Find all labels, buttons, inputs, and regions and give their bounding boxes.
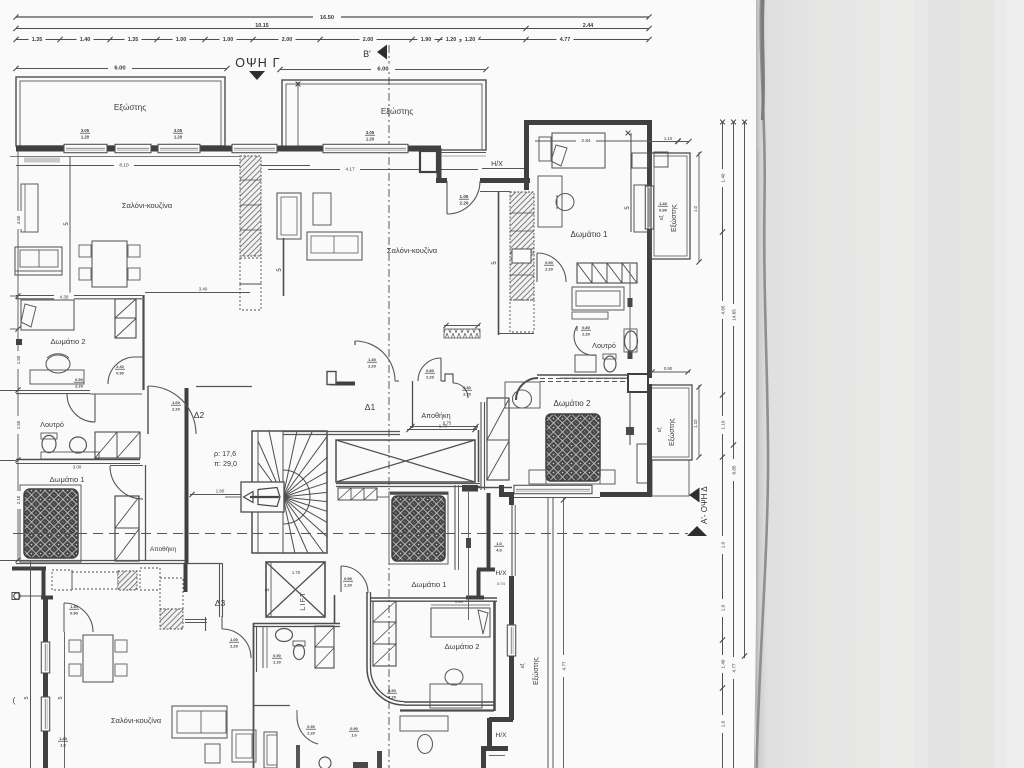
svg-text:2.20: 2.20 — [368, 364, 377, 369]
svg-text:0.75: 0.75 — [443, 421, 452, 426]
svg-text:1.00: 1.00 — [230, 637, 239, 642]
lift shaft with X — [266, 562, 325, 617]
interior dimension line salon-middle — [268, 169, 478, 171]
svg-text:4.17: 4.17 — [345, 166, 355, 172]
second small arc at niche — [453, 383, 468, 398]
door arc bedroom1 left apt — [110, 465, 143, 467]
door of bedroom1 top-right with arc — [536, 253, 538, 282]
window/balcony door in east wall — [645, 186, 653, 229]
svg-text:0.80: 0.80 — [582, 325, 591, 330]
svg-text:1.35: 1.35 — [128, 37, 139, 43]
svg-text:3.05: 3.05 — [366, 130, 375, 135]
wall step down from north wall — [437, 148, 442, 181]
svg-text:1.40: 1.40 — [80, 37, 91, 43]
balcony edge line far left — [30, 560, 32, 768]
pillar box at wall step — [420, 151, 437, 172]
line from wall to stair arrow — [225, 496, 241, 498]
svg-text:1.90: 1.90 — [421, 37, 432, 43]
svg-text:0.90: 0.90 — [659, 208, 668, 213]
svg-text:Εξώστης: Εξώστης — [532, 657, 540, 685]
dimension line (third row, partial widths) at top — [16, 39, 649, 41]
door arc bedroom2 left apt — [108, 357, 135, 384]
vertical dim line east of balcony upper — [698, 152, 700, 262]
a/c box on balcony — [654, 152, 668, 167]
dimension line above left balcony — [16, 68, 227, 70]
svg-text:2.20: 2.20 — [230, 644, 239, 649]
svg-text:3.40: 3.40 — [199, 287, 208, 292]
east wall of bedroom2 right (thick) — [647, 384, 652, 497]
svg-text:Δ3: Δ3 — [215, 598, 226, 608]
svg-text:4.77: 4.77 — [560, 37, 571, 43]
svg-text:εξ: εξ — [659, 215, 665, 220]
door arc D3 balcony — [63, 603, 65, 632]
svg-text:4.77: 4.77 — [732, 663, 737, 672]
svg-text:2.00: 2.00 — [363, 37, 374, 43]
svg-text:3.00: 3.00 — [73, 465, 82, 470]
dim arrow line above void — [407, 429, 477, 431]
white appliance box in kitchen strip — [512, 249, 531, 263]
window W1 in north wall — [64, 144, 107, 152]
svg-text:1.00: 1.00 — [172, 400, 181, 405]
toilet bathroom B — [319, 757, 331, 768]
svg-text:Λουτρό: Λουτρό — [592, 341, 616, 350]
svg-text:1.70: 1.70 — [292, 570, 301, 575]
wardrobe bedroom1 left apt — [115, 496, 139, 561]
stair radial treads — [258, 463, 283, 497]
desk1 bottom-center — [430, 684, 482, 708]
chairs around dining table top-left — [79, 245, 91, 257]
svg-text:0.90: 0.90 — [350, 727, 357, 731]
wardrobe box lower right bedroom2 — [637, 444, 648, 483]
toilet (top-right bathroom) — [604, 356, 616, 372]
white pillar gap at wall stub — [327, 372, 336, 385]
closet row below corridor — [338, 488, 377, 500]
H/X shaft step walls — [477, 568, 495, 572]
dark hatched bed middle (D1) — [392, 496, 445, 561]
svg-text:8.85: 8.85 — [732, 465, 737, 474]
svg-text:5: 5 — [24, 696, 30, 699]
section arrow triangles right — [689, 488, 700, 503]
toilet left bathroom — [42, 435, 56, 452]
north wall of bottom-center unit (double) — [370, 597, 497, 599]
bathroom door leaf+arc (left apt) — [94, 394, 96, 422]
svg-text:1.0: 1.0 — [721, 604, 726, 611]
svg-text:1.50: 1.50 — [16, 355, 21, 364]
svg-text:2.00: 2.00 — [282, 37, 293, 43]
svg-text:Δ2: Δ2 — [194, 410, 205, 420]
vertical dimension line 1 (right margin) — [722, 122, 724, 768]
svg-text:εξ: εξ — [520, 663, 526, 668]
svg-text:2.84: 2.84 — [581, 138, 591, 144]
svg-text:0.90: 0.90 — [273, 654, 280, 658]
thick wall east of storage — [185, 388, 189, 563]
east exterior wall continues — [647, 229, 652, 378]
kitchen counter strip between salons (hatched) — [240, 156, 261, 256]
svg-text:2.20: 2.20 — [426, 375, 435, 380]
section line B (vertical dash-dot) — [388, 45, 390, 768]
kitchen hatched box D3 column — [160, 609, 183, 629]
corner sofa vertical part (salon 2) — [277, 193, 301, 239]
desk bedroom2 right apt — [505, 382, 540, 408]
kitchen hatched box D3 — [118, 571, 137, 590]
corridor wall to east (double) — [404, 701, 494, 703]
sofa D3 — [172, 706, 227, 738]
svg-text:(: ( — [13, 696, 16, 705]
svg-text:0.74: 0.74 — [497, 581, 506, 586]
svg-text:1.0: 1.0 — [721, 541, 726, 548]
bathroom top wall with door gap — [90, 393, 142, 395]
dimension at top of east balcony — [648, 141, 689, 143]
door lines bathroom A — [262, 626, 264, 668]
interior dimension line salon-left — [16, 165, 310, 167]
storage room wall vertical — [145, 465, 147, 560]
entry door D1 leaf — [354, 341, 356, 345]
wash basin (top-right bathroom) — [625, 331, 638, 351]
door arc top of corridor S-wall — [340, 566, 342, 592]
svg-text:1.40: 1.40 — [659, 201, 668, 206]
partition wall right of salon2 — [498, 192, 500, 335]
svg-text:0.90: 0.90 — [116, 372, 123, 376]
stair direction arrow (up) — [241, 482, 284, 512]
closet bathroom A — [315, 626, 334, 668]
svg-text:2.44: 2.44 — [583, 23, 594, 29]
wall cut mark small dark square — [16, 339, 22, 345]
entry door D1 swing arc — [355, 341, 395, 381]
north exterior wall (thick) with window openings — [16, 146, 64, 152]
chairs dining D3 — [69, 640, 81, 652]
wash basin left bathroom — [70, 437, 87, 453]
bed bedroom2 (left apt) — [21, 300, 74, 330]
vertical dimension line 2 (right margin) — [733, 122, 735, 768]
sofa in salon top-left — [15, 247, 62, 275]
svg-text:Β': Β' — [363, 49, 371, 59]
svg-text:2.20: 2.20 — [545, 267, 554, 272]
door arc bathroom B — [297, 716, 318, 744]
dining table top-left — [92, 241, 127, 287]
left margin dimension line — [17, 150, 19, 560]
svg-text:ρ: 17,6: ρ: 17,6 — [214, 449, 236, 458]
thin link line to closet row — [377, 496, 389, 498]
svg-text:6.00: 6.00 — [377, 67, 388, 73]
storage door arc middle — [418, 358, 441, 381]
kitchen dotted counter row D3 — [52, 570, 72, 590]
svg-text:4.65: 4.65 — [721, 305, 726, 314]
bed in bedroom1 top-right — [552, 133, 605, 168]
svg-text:1.0: 1.0 — [60, 743, 66, 748]
dimension line (second row) at top — [16, 28, 649, 30]
dim label on wall — [54, 293, 74, 300]
party wall stub between D1 and D2 — [330, 382, 355, 386]
tall closet with diagonals (corridor east) — [487, 398, 509, 480]
inner wall line bedroom2 right — [629, 392, 631, 445]
svg-text:2.20: 2.20 — [388, 695, 397, 700]
svg-text:Η/Χ: Η/Χ — [496, 570, 508, 577]
chair in bedroom1 top-right — [556, 194, 574, 211]
svg-text:1.20: 1.20 — [174, 135, 183, 140]
partition wall between salons — [283, 238, 285, 296]
east wall bottom-center unit — [493, 601, 496, 711]
svg-text:1.00: 1.00 — [460, 194, 469, 199]
storage middle west wall — [412, 381, 414, 428]
window W3 in north wall — [158, 144, 200, 152]
partition wall east of bedroom2 — [142, 295, 144, 390]
svg-text:LIFT: LIFT — [298, 591, 307, 610]
svg-text:1.0: 1.0 — [721, 720, 726, 727]
chair bedroom2 right apt — [513, 390, 532, 408]
section line A (dashed horizontal) — [13, 533, 688, 535]
svg-text:1.40: 1.40 — [70, 604, 79, 609]
wall piece right of bathroom A — [334, 595, 336, 623]
chair bedroom2 left apt — [46, 355, 70, 373]
dining table D3 — [83, 635, 113, 682]
svg-text:0.80: 0.80 — [463, 386, 470, 390]
balcony face lines right of wall — [441, 152, 486, 154]
ragged scan fold edge — [757, 0, 769, 768]
side table D3 — [205, 744, 220, 763]
dimension line (overall width) at top — [16, 16, 649, 18]
bed head line middle — [390, 492, 448, 494]
wash basin bathroom A — [276, 629, 293, 642]
svg-text:0.90: 0.90 — [344, 576, 353, 581]
dark hatched bed bedroom2 right apt — [546, 414, 600, 481]
svg-text:Δωμάτιο 1: Δωμάτιο 1 — [411, 580, 446, 589]
corridor curved wall into bedroom2 — [516, 378, 538, 400]
svg-text:2.20: 2.20 — [75, 384, 84, 389]
chair2 bottom-center — [418, 735, 433, 754]
svg-text:0.90: 0.90 — [307, 725, 314, 729]
inner wall line of bedroom1 east side — [630, 133, 632, 232]
bed bottom-center unit — [431, 608, 490, 637]
bathroom door arc (top-right unit) — [574, 326, 596, 355]
svg-text:1.35: 1.35 — [32, 37, 43, 43]
kitchen dotted box D3 right — [140, 568, 160, 590]
svg-text:Δ1: Δ1 — [365, 402, 376, 412]
wall extension stubs at left edge — [0, 390, 16, 392]
bed side tables bedroom2 right apt — [529, 470, 546, 484]
svg-text:2.20: 2.20 — [273, 661, 280, 665]
corridor east walls — [478, 430, 480, 482]
svg-text:1.00: 1.00 — [176, 37, 187, 43]
H/X shaft west wall (thick) — [487, 493, 491, 568]
bathroom B walls — [253, 705, 290, 707]
svg-text:4.77: 4.77 — [562, 661, 567, 670]
stair inner edge line — [257, 431, 259, 553]
coffee table salon 2 — [313, 193, 331, 225]
svg-text:2.40: 2.40 — [116, 365, 123, 369]
dimension line above middle balcony — [280, 69, 486, 71]
closet with diagonals right of bathroom — [95, 432, 140, 458]
svg-text:10.15: 10.15 — [255, 23, 269, 29]
balcony (Exostis) top-middle outline — [282, 80, 486, 150]
vertical dimension line 3 (right margin) — [744, 122, 746, 658]
svg-text:14.65: 14.65 — [732, 309, 737, 321]
svg-text:0.80: 0.80 — [426, 368, 435, 373]
svg-text:6.00: 6.00 — [114, 66, 125, 72]
svg-text:Εξώστης: Εξώστης — [114, 103, 146, 112]
svg-text:3.05: 3.05 — [174, 128, 183, 133]
svg-text:2.20: 2.20 — [307, 732, 314, 736]
svg-text:3.05: 3.05 — [81, 128, 90, 133]
small dark wall chunks at bottom edge — [353, 762, 368, 768]
svg-text:2.20: 2.20 — [172, 407, 181, 412]
svg-text:Αποθήκη: Αποθήκη — [421, 411, 450, 420]
hall wall above stairs — [196, 386, 252, 388]
grey page-edge region on the right of the scan — [756, 0, 1024, 768]
closet column in corridor — [373, 601, 396, 666]
svg-text:Δωμάτιο 2: Δωμάτιο 2 — [50, 337, 85, 346]
svg-text:0.74: 0.74 — [493, 746, 502, 751]
wardrobe boxes on east side — [632, 153, 648, 168]
dim line hall to stairs — [190, 494, 252, 496]
svg-text:16.50: 16.50 — [320, 15, 334, 21]
dark wall chunk at void corner — [462, 485, 478, 492]
svg-text:2.20: 2.20 — [463, 393, 470, 397]
svg-text:Σαλόνι-κουζίνα: Σαλόνι-κουζίνα — [387, 246, 438, 255]
thin partition line in salon-left — [69, 156, 71, 295]
chair1 bottom-center — [445, 669, 463, 685]
bed frame bedroom middle (D1) — [389, 492, 448, 564]
corner sofa horizontal part (salon 2) — [307, 232, 362, 260]
wall piece east of D3 entry — [184, 563, 188, 592]
kitchen dotted cabinets below strip — [240, 258, 261, 284]
north wall of top-right unit (thick) — [524, 120, 652, 125]
svg-text:1.10: 1.10 — [693, 419, 698, 428]
svg-text:Δωμάτιο 1: Δωμάτιο 1 — [571, 230, 608, 239]
svg-text:Η/Χ: Η/Χ — [496, 732, 508, 739]
line under window — [514, 497, 600, 499]
svg-text:1.10: 1.10 — [721, 420, 726, 429]
svg-text:1.0: 1.0 — [693, 205, 698, 212]
kitchen dotted cabinet below strip (right) — [510, 300, 534, 332]
svg-text:1.0: 1.0 — [351, 734, 356, 738]
svg-text:Δωμάτιο 2: Δωμάτιο 2 — [554, 399, 591, 408]
void over lower floor (X-crossed rectangle) — [336, 440, 475, 482]
kitchen counter strip top-right unit (hatched) — [510, 192, 534, 300]
svg-text:2.20: 2.20 — [344, 583, 353, 588]
thin double boundary above thick wall — [511, 505, 513, 576]
svg-text:0.90: 0.90 — [664, 366, 673, 371]
svg-text:1.20: 1.20 — [446, 37, 457, 43]
storage niche walls — [441, 374, 453, 383]
balcony east upper (Exostis) — [651, 153, 690, 259]
lamp symbol on balcony wall — [14, 593, 20, 599]
corridor double wall below void — [454, 485, 456, 570]
svg-text:εξ: εξ — [657, 427, 663, 432]
entry door arc D2 — [147, 386, 149, 434]
svg-text:Δωμάτιο 1: Δωμάτιο 1 — [49, 475, 84, 484]
zigzag threshold band top (balcony door of D1) — [444, 329, 480, 338]
svg-text:ΟΨΗ Γ: ΟΨΗ Γ — [235, 56, 281, 70]
corridor S-wall lower curve — [367, 668, 404, 705]
toilet bathroom A — [294, 645, 305, 660]
svg-text:1.40: 1.40 — [721, 173, 726, 182]
wall below bathroom (double) — [16, 459, 140, 461]
svg-text:Η/Χ: Η/Χ — [491, 161, 503, 168]
dark hatched bed bedroom1 left apt — [24, 489, 78, 558]
svg-text:5: 5 — [58, 696, 64, 699]
west balcony edge lines of bottom-right unit — [547, 497, 549, 768]
bathroom counter line — [41, 452, 99, 459]
dim line below bathroom — [650, 371, 690, 373]
svg-text:4.0: 4.0 — [496, 548, 502, 553]
svg-text:1.40: 1.40 — [721, 659, 726, 668]
stair well outline — [252, 431, 327, 553]
svg-text:Εξώστης: Εξώστης — [670, 204, 678, 232]
wall below desk1 — [400, 709, 494, 711]
grey smudge bar below wall — [24, 158, 60, 163]
cabinet rects below closet — [572, 287, 624, 310]
stair walk-line arc — [283, 470, 310, 524]
desk in bedroom1 top-right — [538, 176, 562, 227]
svg-text:1.40: 1.40 — [59, 736, 68, 741]
wall segment to the hall (horizontal thick) — [436, 178, 447, 183]
vertical dim line from door — [64, 632, 66, 768]
window W2 in north wall — [115, 144, 151, 152]
lift dim line left — [270, 562, 272, 617]
svg-text:1.20: 1.20 — [465, 37, 476, 43]
svg-text:Αποθήκη: Αποθήκη — [150, 546, 176, 553]
south wall of top-right unit — [537, 374, 649, 376]
wardrobe bedroom2 (left apt) — [115, 299, 136, 338]
balcony (Exostis) top-left outline — [16, 77, 225, 146]
closet row with diagonals (top-right unit) — [577, 263, 637, 283]
door D-hall leaf and swing arc — [446, 181, 448, 214]
svg-text:π: 29,0: π: 29,0 — [214, 459, 237, 468]
svg-text:4.30: 4.30 — [60, 294, 69, 299]
bathroom A west wall — [256, 626, 258, 672]
corridor wall above bathroom — [16, 390, 90, 392]
corridor wall double (east of void) — [480, 402, 482, 490]
window W4 in north wall — [232, 144, 277, 152]
corridor walls D3 entry — [219, 563, 221, 617]
svg-text:Σαλόνι-κουζίνα: Σαλόνι-κουζίνα — [111, 716, 162, 725]
svg-text:2.20: 2.20 — [582, 332, 591, 337]
svg-text:Σαλόνι-κουζίνα: Σαλόνι-κουζίνα — [122, 201, 173, 210]
hall wall (double) left of void — [283, 431, 400, 433]
svg-text:Α'- ΟΨΗ Δ: Α'- ΟΨΗ Δ — [700, 486, 709, 524]
west exterior wall of D3 with windows — [43, 599, 48, 642]
svg-text:1.50: 1.50 — [16, 420, 21, 429]
shower bathroom B — [264, 732, 277, 768]
interior face line below north wall — [10, 156, 240, 158]
balcony east lower (Exostis) — [648, 385, 692, 460]
svg-text:0.90: 0.90 — [388, 688, 397, 693]
dim line toward bath — [145, 292, 250, 294]
bedside table bedroom1 top-right — [539, 137, 551, 161]
thick wall top of D3 — [12, 567, 46, 571]
pillar box top-right of bedroom2 — [628, 374, 648, 392]
small dim line right of H/X door — [482, 168, 524, 170]
svg-text:1.0: 1.0 — [496, 541, 502, 546]
hall face line — [480, 191, 510, 193]
bathroom A walls (double) — [253, 623, 340, 625]
svg-text:Λουτρό: Λουτρό — [40, 420, 64, 429]
svg-text:2.20: 2.20 — [460, 201, 469, 206]
svg-text:1.10: 1.10 — [664, 136, 673, 141]
svg-text:1.20: 1.20 — [366, 137, 375, 142]
svg-text:0.90: 0.90 — [545, 260, 554, 265]
svg-text:Εξώστης: Εξώστης — [668, 418, 676, 446]
dim line on bed — [431, 604, 490, 606]
west wall of top-right unit — [524, 120, 529, 190]
svg-text:Δωμάτιο 2: Δωμάτιο 2 — [444, 642, 479, 651]
window W5 in north wall — [323, 144, 408, 152]
tv unit on west wall — [21, 184, 38, 232]
dim line through corridor with marker — [468, 490, 470, 620]
svg-text:0.84: 0.84 — [455, 599, 464, 604]
interior dimension line in middle balcony — [297, 82, 299, 148]
dim arrow line below storage — [410, 426, 478, 428]
